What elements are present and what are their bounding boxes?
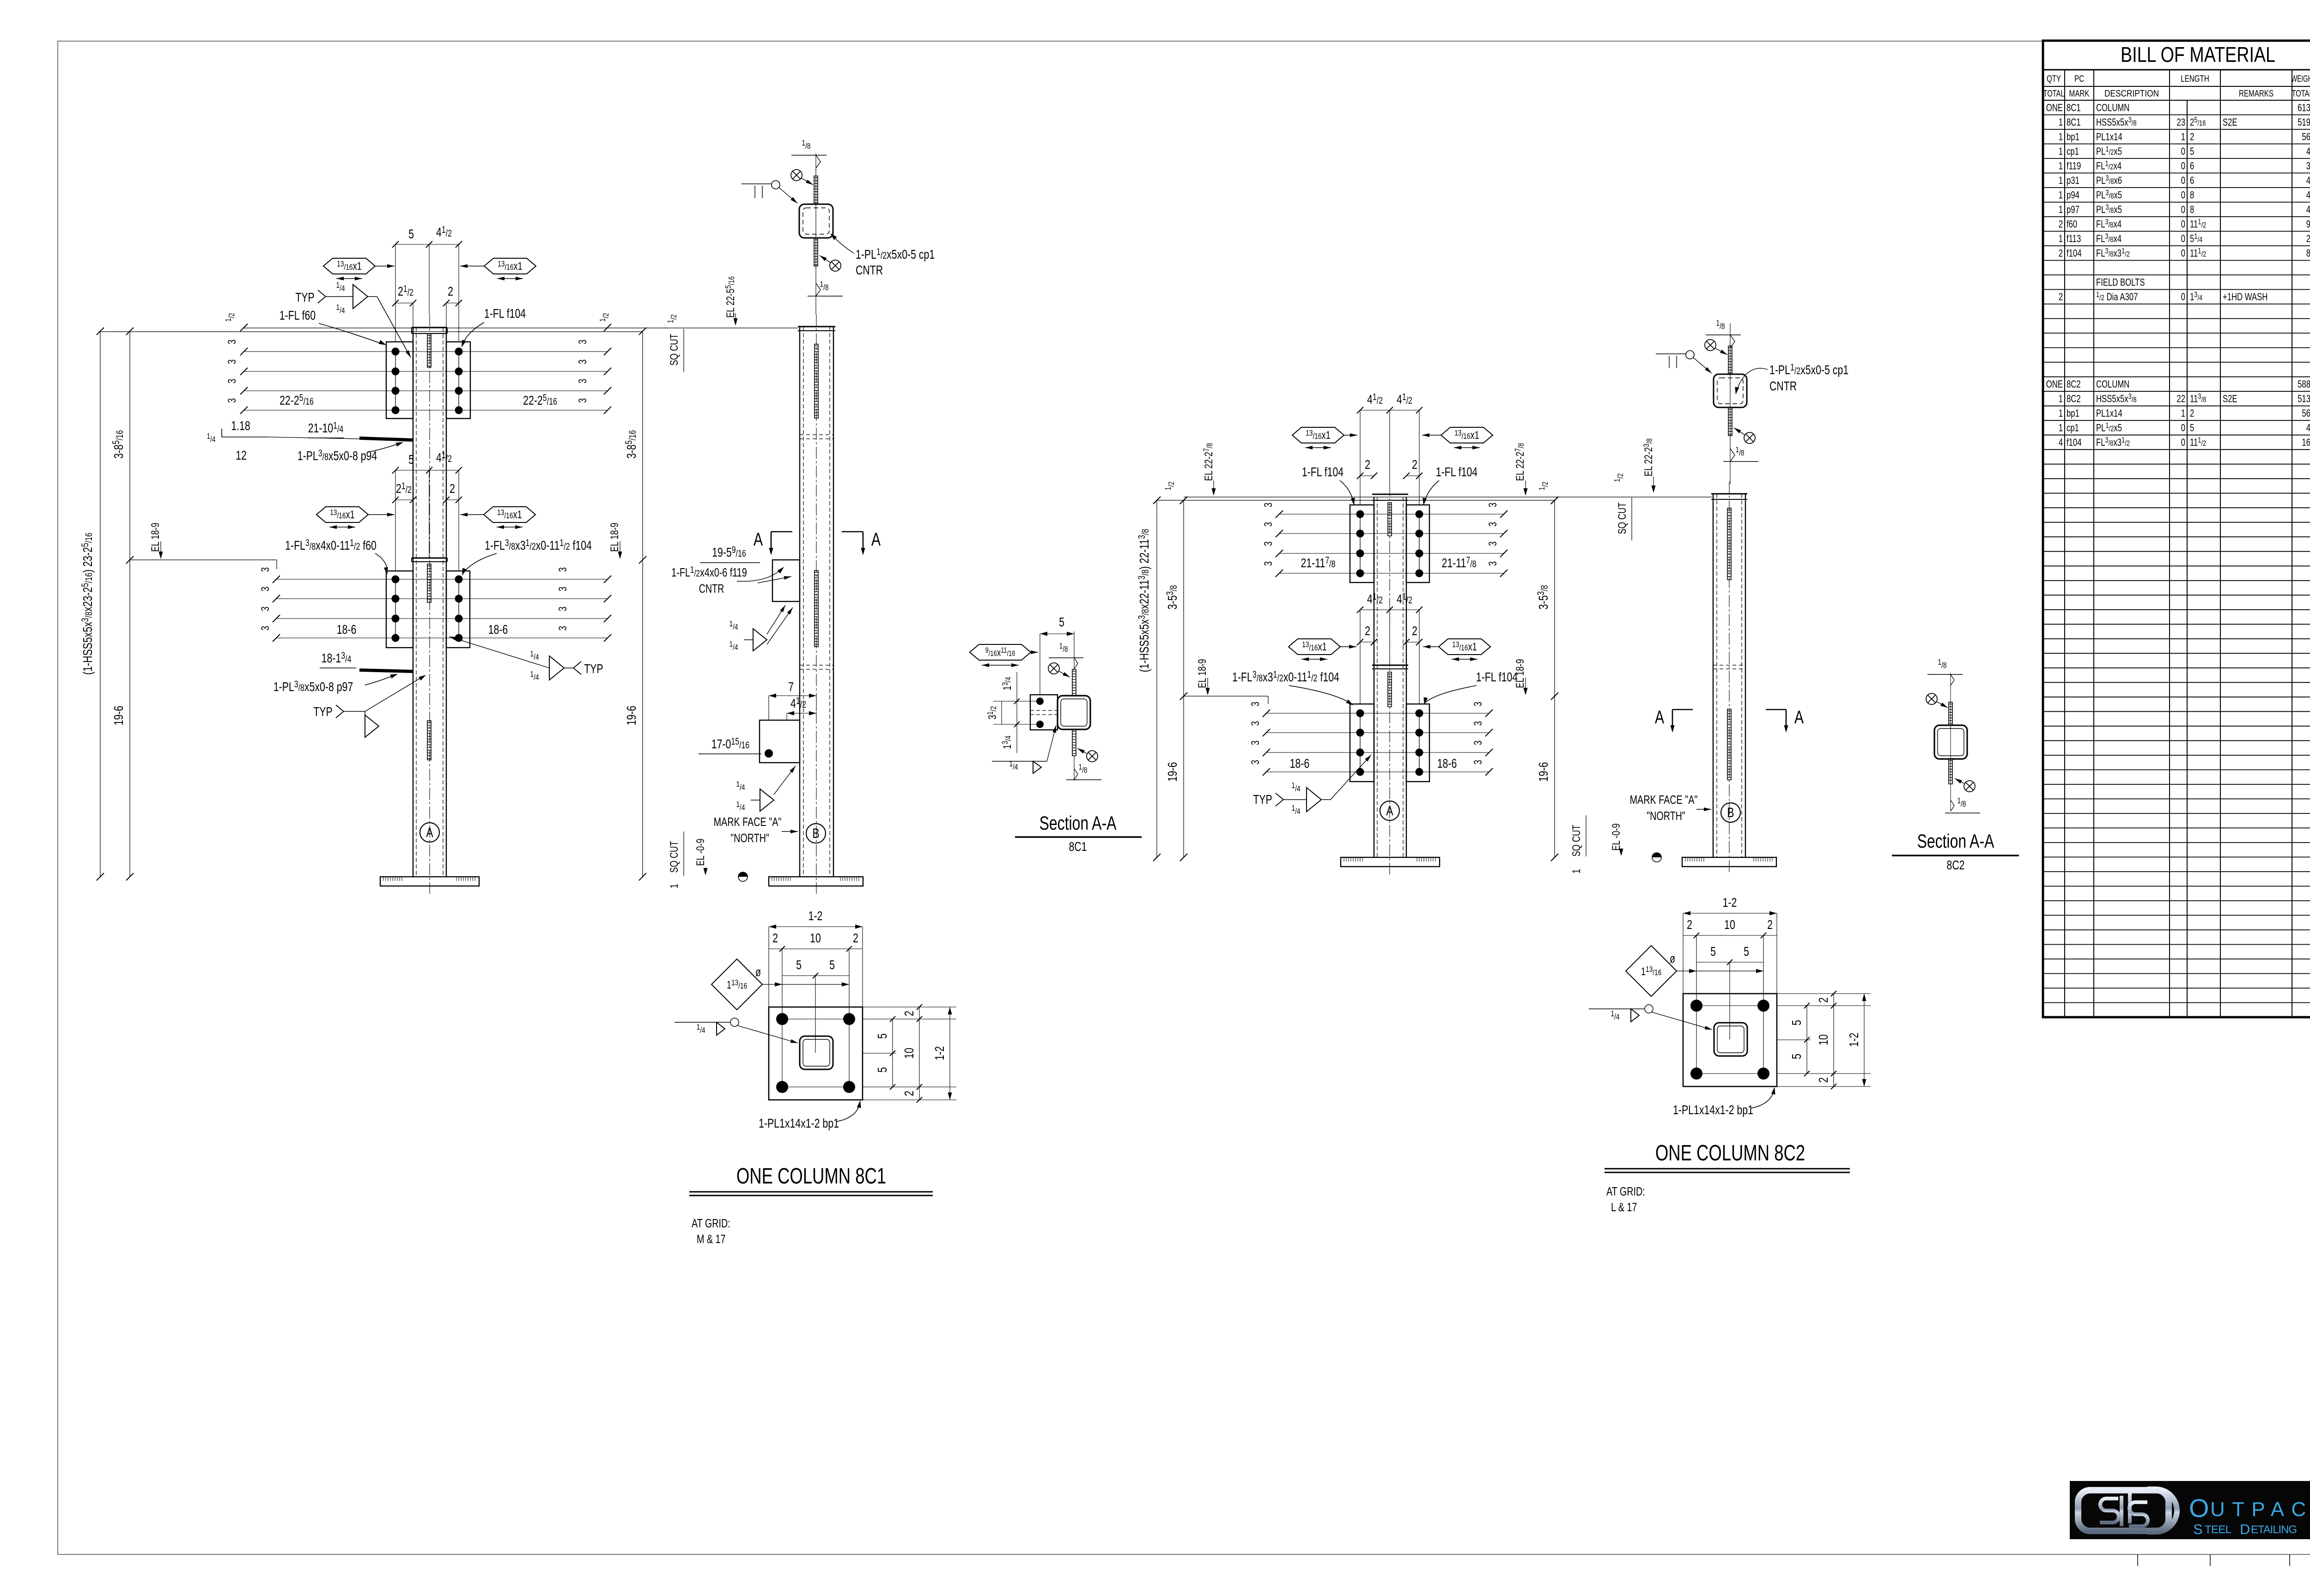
- svg-text:5: 5: [408, 227, 414, 242]
- svg-text:BILL OF MATERIAL: BILL OF MATERIAL: [2121, 42, 2275, 67]
- base plan 8C2 weld 1/4: [1589, 1005, 1712, 1030]
- svg-text:1: 1: [2059, 117, 2063, 128]
- field weld otimes top cp1 8C1: [791, 170, 813, 185]
- weld 1/8 bottom flag cp1 8C2: [1723, 445, 1758, 461]
- SQ CUT label top side 8C1: [666, 314, 684, 372]
- base plate plan 8C2 plate: [1683, 994, 1777, 1086]
- section A-A 8C1 weld 1/8 bottom: [1066, 763, 1101, 780]
- base plan 8C1 weld 1/4: [675, 1018, 798, 1043]
- svg-text:588: 588: [2298, 379, 2310, 390]
- svg-text:1: 1: [2059, 394, 2063, 405]
- bill of material table grid: [2043, 41, 2310, 1017]
- flange plate f104 upper left 8C2: [1350, 505, 1374, 583]
- dim 2 top 8C1: [443, 284, 462, 328]
- section cut A-A flags 8C2: [1655, 707, 1804, 733]
- svg-text:ø: ø: [755, 965, 761, 978]
- svg-text:1-2: 1-2: [932, 1046, 947, 1061]
- base plate plan 8C2 anchor bolts: [1690, 1000, 1769, 1080]
- column 8C1 HSS elevation outline: [412, 314, 447, 894]
- datum point symbol base 8C1: [738, 872, 748, 881]
- svg-text:ONE: ONE: [2046, 102, 2063, 114]
- svg-text:10: 10: [902, 1048, 917, 1059]
- svg-text:1: 1: [2059, 160, 2063, 172]
- label 1-FL3/8x4x0-11 1/2 f60: [285, 537, 389, 575]
- svg-text:DESCRIPTION: DESCRIPTION: [2104, 89, 2159, 99]
- label 1-FL3/8x3 1/2x0-11 1/2 f104 8C2: [1232, 669, 1354, 707]
- svg-text:S2E: S2E: [2223, 117, 2237, 128]
- dim 2-1/2 top 8C1: [392, 283, 416, 328]
- svg-text:SQ CUT: SQ CUT: [668, 334, 681, 366]
- section A-A 8C1 side dims: [986, 672, 1037, 753]
- svg-text:3: 3: [226, 340, 238, 344]
- svg-text:MARK FACE "A": MARK FACE "A": [714, 815, 782, 828]
- svg-text:0: 0: [2181, 175, 2185, 187]
- grid bubble B column 8C1: [806, 824, 826, 843]
- svg-text:10: 10: [1724, 917, 1735, 932]
- label 1-PL1/2x5x0-5 cp1 8C1: [829, 232, 935, 278]
- dimension 21-10 1/4: [308, 420, 344, 438]
- half inch dim top left 8C1: [224, 313, 248, 331]
- svg-text:3: 3: [557, 587, 569, 591]
- svg-text:2: 2: [2306, 233, 2310, 245]
- svg-text:ø: ø: [1670, 952, 1675, 965]
- svg-text:9: 9: [2306, 218, 2310, 230]
- svg-text:AT GRID:: AT GRID:: [692, 1216, 730, 1230]
- svg-text:TOTAL: TOTAL: [2292, 89, 2310, 99]
- svg-text:3: 3: [226, 398, 238, 403]
- weld all-around circle cp1 8C1: [742, 181, 797, 203]
- label 1-PL3/8x5x0-8 p94: [298, 440, 404, 463]
- base plate bp1 under column 8C2: [1341, 857, 1440, 867]
- 3 inch spacing labels lower group 8C1: [259, 567, 569, 631]
- svg-text:EL 18-9: EL 18-9: [608, 522, 621, 552]
- bolt callout hexagon mid right 8C1: [460, 507, 535, 527]
- section A-A 8C2 flat below: [1949, 759, 1952, 784]
- section A-A 8C1 weld 1/4: [992, 725, 1056, 773]
- label 1-FL f104 upper: [460, 306, 526, 348]
- svg-text:5: 5: [408, 452, 414, 467]
- dimension line 22-11 3/8 overall 8C2: [1136, 497, 1161, 861]
- svg-text:1-2: 1-2: [808, 909, 823, 923]
- svg-text:12: 12: [236, 448, 247, 463]
- svg-text:18-6: 18-6: [488, 622, 508, 637]
- svg-text:1-FL f104: 1-FL f104: [1302, 465, 1343, 479]
- section A-A 8C2 flat above: [1949, 702, 1952, 725]
- svg-text:REMARKS: REMARKS: [2239, 88, 2274, 99]
- svg-text:1-FL1/2x4x0-6 f119: 1-FL1/2x4x0-6 f119: [671, 564, 747, 579]
- section A-A 8C1 flat below: [1072, 729, 1076, 781]
- svg-text:5: 5: [875, 1033, 890, 1039]
- svg-text:3: 3: [1472, 740, 1484, 745]
- base plan 8C1 right dims: [863, 1004, 956, 1103]
- svg-text:4: 4: [2306, 423, 2310, 434]
- svg-text:LENGTH: LENGTH: [2181, 73, 2209, 84]
- border fold ticks: [2138, 1223, 2310, 1566]
- weld 1/8 top flag cp1 8C2: [1706, 319, 1741, 348]
- svg-text:0: 0: [2181, 146, 2185, 158]
- flange plate f104 lower left 8C2: [1350, 704, 1374, 782]
- svg-text:8C2: 8C2: [2067, 394, 2081, 405]
- svg-text:EL 18-9: EL 18-9: [1196, 659, 1209, 688]
- svg-text:3: 3: [1249, 702, 1262, 706]
- svg-text:f60: f60: [2067, 218, 2077, 230]
- svg-text:TYP: TYP: [1253, 792, 1272, 807]
- 3 inch spacing labels upper group 8C1: [226, 340, 589, 403]
- section A-A 8C1 otimes bottom: [1077, 748, 1098, 762]
- svg-text:2: 2: [2059, 291, 2063, 303]
- weld 1/4 1/4 at f113: [736, 766, 796, 813]
- svg-text:2: 2: [1412, 624, 1417, 638]
- svg-text:1-2: 1-2: [1847, 1033, 1861, 1047]
- svg-text:8: 8: [2190, 204, 2194, 216]
- svg-text:3: 3: [1262, 541, 1275, 546]
- dim 2-1/2 mid 8C1: [392, 480, 416, 558]
- base plate bp1 under column 8C1: [380, 877, 479, 886]
- dim 2 mid 8C1: [443, 481, 462, 558]
- svg-text:2: 2: [448, 284, 453, 299]
- svg-text:4: 4: [2306, 175, 2310, 187]
- label 1-FL3/8x3 1/2x0-11 1/2 f104: [460, 537, 592, 577]
- svg-text:B: B: [1727, 805, 1734, 820]
- svg-text:2: 2: [1816, 997, 1831, 1003]
- svg-text:1-FL3/8x31/2x0-111/2 f104: 1-FL3/8x31/2x0-111/2 f104: [1232, 669, 1339, 685]
- column 8C2 HSS elevation outline: [1372, 484, 1408, 874]
- svg-text:2: 2: [772, 931, 778, 946]
- svg-text:Section A-A: Section A-A: [1917, 830, 1994, 852]
- svg-text:f113: f113: [2067, 233, 2081, 245]
- BOM column headers: [2043, 73, 2310, 99]
- svg-text:A: A: [1386, 803, 1393, 819]
- SQ CUT label top side 8C2: [1613, 473, 1632, 540]
- svg-text:8C1: 8C1: [1069, 839, 1087, 854]
- svg-text:SQ CUT: SQ CUT: [668, 841, 681, 873]
- svg-text:Section A-A: Section A-A: [1039, 812, 1117, 834]
- flange plate f60 upper left 8C1: [386, 342, 413, 419]
- svg-text:3: 3: [1487, 522, 1499, 527]
- column 8C1 stitch welds on centerline: [427, 334, 431, 760]
- Outpace Steel Detailing logo: [2070, 1481, 2310, 1539]
- svg-text:TYP: TYP: [295, 290, 314, 305]
- base plate plan 8C2 HSS: [1714, 1023, 1747, 1056]
- svg-text:AT GRID:: AT GRID:: [1606, 1184, 1645, 1198]
- title ONE COLUMN 8C2: [1605, 1141, 1850, 1172]
- svg-text:"NORTH": "NORTH": [730, 831, 769, 844]
- svg-text:3: 3: [226, 359, 238, 364]
- base plan 8C2 dim 1-2 top: [1683, 895, 1777, 994]
- plate f113 side view 8C1: [699, 680, 816, 763]
- section A-A 8C2 otimes bottom: [1955, 778, 1975, 792]
- svg-text:3: 3: [1472, 702, 1484, 706]
- weld symbol TYP bottom 8C2: [1253, 755, 1371, 816]
- svg-text:2: 2: [1365, 457, 1370, 472]
- svg-text:PC: PC: [2074, 73, 2084, 84]
- svg-text:cp1: cp1: [2067, 423, 2079, 434]
- svg-text:3: 3: [1487, 561, 1499, 566]
- svg-text:MARK FACE "A": MARK FACE "A": [1630, 793, 1698, 806]
- field weld otimes bottom cp1 8C2: [1734, 428, 1755, 443]
- dim 2 2 mid 8C2: [1357, 624, 1422, 645]
- svg-text:1-FL3/8x31/2x0-111/2 f104: 1-FL3/8x31/2x0-111/2 f104: [485, 537, 592, 553]
- svg-text:3: 3: [577, 379, 589, 383]
- SQ CUT label bottom side 8C2: [1570, 815, 1623, 874]
- svg-text:10: 10: [810, 931, 821, 946]
- field weld otimes bottom cp1 8C1: [820, 255, 841, 271]
- label 1-PL1x14x1-2 bp1: [759, 1100, 862, 1131]
- svg-text:18-6: 18-6: [1437, 756, 1457, 771]
- svg-text:3: 3: [1249, 760, 1262, 765]
- svg-text:2: 2: [2059, 248, 2063, 259]
- section A-A 8C1 dim 5: [1040, 615, 1074, 695]
- base plate plan 8C1 plate: [769, 1007, 863, 1100]
- svg-text:(1-HSS5x5x3/8x22-113/8) 22-11: (1-HSS5x5x3/8x22-113/8) 22-113/8: [1136, 529, 1152, 673]
- section A-A 8C1 hexagon 9/16x11/16: [970, 644, 1038, 665]
- base plan 8C1 dim 1-2 top: [769, 909, 863, 1007]
- dimension 18-6 right 8C2: [1437, 756, 1457, 771]
- svg-text:f119: f119: [2067, 160, 2081, 172]
- svg-text:0: 0: [2181, 189, 2185, 201]
- cap plate cp1 edge above 8C1: [814, 176, 818, 204]
- svg-text:8C2: 8C2: [2067, 379, 2081, 390]
- svg-text:4: 4: [2306, 189, 2310, 201]
- section A-A 8C1 otimes top: [1048, 663, 1070, 677]
- svg-text:cp1: cp1: [2067, 146, 2079, 158]
- svg-text:2: 2: [853, 931, 858, 946]
- svg-text:QTY: QTY: [2047, 73, 2061, 84]
- section A-A 8C2 weld 1/8 top: [1927, 658, 1963, 686]
- svg-text:1: 1: [2059, 131, 2063, 143]
- dimension 18-6 lower left: [337, 622, 357, 637]
- svg-text:3: 3: [1487, 503, 1499, 507]
- dimension 22-2 5/16 upper right: [523, 392, 557, 408]
- svg-text:4: 4: [2059, 437, 2063, 449]
- bolt callout hexagon mid right 8C2: [1423, 639, 1490, 659]
- dimension 22-2 5/16 upper left: [280, 392, 314, 408]
- svg-text:3: 3: [557, 626, 569, 631]
- section A-A 8C2 title: [1892, 830, 2019, 873]
- base plate bp1 side view 8C2: [1682, 857, 1776, 867]
- AT GRID L and 17: [1606, 1184, 1645, 1214]
- svg-text:"NORTH": "NORTH": [1647, 809, 1685, 822]
- svg-text:2: 2: [2059, 218, 2063, 230]
- weld symbol TYP bottom left 8C1: [313, 673, 427, 737]
- svg-text:f104: f104: [2067, 437, 2082, 449]
- svg-text:16: 16: [2302, 437, 2310, 449]
- svg-text:1: 1: [1570, 869, 1583, 874]
- svg-text:COLUMN: COLUMN: [2096, 102, 2129, 114]
- weld 1/8 top flag cp1 8C1: [791, 139, 827, 168]
- right dimension line 8C1 elevation: [608, 328, 646, 880]
- dimension line segments 3-8 5/16 and 19-6 left 8C1: [110, 328, 134, 880]
- EL 22-2 7/8 label left 8C2: [1202, 443, 1216, 496]
- svg-text:p31: p31: [2067, 175, 2079, 187]
- base plan 8C2 dims 2 10 2: [1683, 917, 1777, 1006]
- svg-text:1-PL1/2x5x0-5 cp1: 1-PL1/2x5x0-5 cp1: [1769, 362, 1848, 377]
- svg-text:1: 1: [2059, 233, 2063, 245]
- svg-text:3: 3: [557, 607, 569, 611]
- svg-text:2: 2: [902, 1011, 917, 1016]
- plate p94 edge view: [359, 437, 413, 442]
- svg-text:CNTR: CNTR: [699, 582, 724, 595]
- svg-text:3: 3: [1472, 760, 1484, 765]
- svg-text:0: 0: [2181, 291, 2185, 303]
- bolt rows lower group 8C1: [273, 576, 611, 642]
- section A-A 8C1 title: [1015, 812, 1142, 854]
- svg-text:3: 3: [1262, 561, 1275, 566]
- svg-text:ONE: ONE: [2046, 379, 2063, 390]
- dim 5 and 4-1/2 mid 8C1: [392, 449, 462, 571]
- svg-text:613: 613: [2298, 102, 2310, 114]
- bolt callout hexagon top left 8C2: [1292, 427, 1357, 448]
- dimension 21-11 7/8 right: [1441, 555, 1476, 570]
- cap plate cp1 detail 8C2 HSS section: [1714, 323, 1747, 484]
- column 8C2 stitch welds on centerline: [1388, 503, 1392, 707]
- svg-text:5: 5: [1059, 615, 1064, 630]
- label MARK FACE A NORTH 8C1: [714, 815, 798, 844]
- svg-text:ETAILING: ETAILING: [2251, 1523, 2297, 1536]
- svg-text:19-6: 19-6: [1165, 762, 1180, 782]
- svg-text:WEIGHT: WEIGHT: [2292, 74, 2310, 84]
- svg-text:A: A: [871, 529, 881, 550]
- column 8C1 side view outline: [798, 314, 835, 894]
- svg-text:1-FL f104: 1-FL f104: [1436, 465, 1477, 479]
- grid bubble A column 8C2: [1380, 801, 1399, 820]
- svg-text:2: 2: [1365, 624, 1370, 638]
- hidden line p94 side view: [800, 435, 833, 439]
- EL 18-9 reference left 8C1: [130, 522, 277, 569]
- label 1-PL1x14x1-2 bp1 8C2: [1673, 1086, 1776, 1117]
- svg-text:A: A: [1794, 707, 1804, 728]
- dimension 18-6 left 8C2: [1290, 756, 1310, 771]
- svg-text:3: 3: [1249, 721, 1262, 726]
- flange plate f60 lower left 8C1: [386, 571, 413, 648]
- svg-text:4: 4: [2306, 204, 2310, 216]
- base plan 8C2 right dims: [1777, 991, 1871, 1089]
- half inch dim top left 8C2: [1164, 481, 1187, 504]
- svg-text:56: 56: [2302, 408, 2310, 419]
- base plate plan 8C1 HSS: [800, 1036, 833, 1069]
- label 1-FL f104 top left 8C2: [1302, 465, 1356, 506]
- right dimension line 8C2 elevation: [1514, 497, 1558, 861]
- svg-text:2: 2: [1816, 1077, 1831, 1083]
- svg-text:0: 0: [2181, 248, 2185, 259]
- label 1-PL1/2x5x0-5 cp1 8C2: [1734, 362, 1849, 395]
- svg-text:1.18: 1.18: [231, 419, 250, 433]
- base plan 8C2 bolt dia diamond: [1626, 946, 1763, 996]
- cap plate cp1 edge below 8C1: [814, 238, 818, 266]
- svg-text:5: 5: [829, 958, 835, 972]
- svg-text:18-6: 18-6: [1290, 756, 1310, 771]
- top of steel line 8C1: [100, 328, 798, 332]
- svg-text:A: A: [1655, 707, 1665, 728]
- svg-text:3: 3: [259, 567, 272, 572]
- svg-text:6: 6: [2190, 175, 2194, 187]
- svg-text:3: 3: [226, 379, 238, 383]
- svg-text:22: 22: [2176, 394, 2185, 405]
- bolt callout hexagon top left 8C1: [323, 258, 395, 279]
- label 1-FL f104 lower right 8C2: [1422, 670, 1518, 705]
- svg-text:SQ CUT: SQ CUT: [1570, 825, 1583, 857]
- top of steel line 8C2: [1157, 497, 1712, 500]
- dim 4-1/2 4-1/2 top 8C2: [1357, 391, 1422, 505]
- weld 1/8 bottom flag cp1 8C1: [808, 280, 843, 296]
- dimension line 23-2 5/16 overall 8C1: [79, 328, 104, 880]
- label 1-FL f104 top right 8C2: [1422, 465, 1478, 506]
- svg-text:5: 5: [1710, 944, 1716, 959]
- slope symbol 1.18:12: [207, 419, 359, 463]
- svg-text:S: S: [2193, 1521, 2203, 1537]
- svg-text:MARK: MARK: [2069, 88, 2090, 99]
- svg-text:COLUMN: COLUMN: [2096, 379, 2129, 390]
- svg-text:1-FL3/8x4x0-111/2 f60: 1-FL3/8x4x0-111/2 f60: [285, 537, 377, 553]
- svg-text:3: 3: [1249, 740, 1262, 745]
- svg-text:1-FL f104: 1-FL f104: [1476, 670, 1518, 685]
- hidden splice line side 8C2: [1713, 665, 1745, 669]
- EL 22-5 5/16 label side 8C1: [724, 276, 737, 326]
- svg-text:56: 56: [2302, 131, 2310, 143]
- svg-text:1-FL f60: 1-FL f60: [280, 308, 316, 323]
- svg-text:3: 3: [577, 398, 589, 403]
- plate p97 edge view: [359, 668, 413, 673]
- svg-text:513: 513: [2298, 394, 2310, 405]
- bolt callout hexagon mid left 8C2: [1289, 639, 1356, 659]
- svg-text:L & 17: L & 17: [1611, 1200, 1637, 1214]
- svg-text:1-FL f104: 1-FL f104: [484, 306, 526, 321]
- svg-text:S2E: S2E: [2223, 394, 2237, 405]
- label 1-PL3/8x5x0-8 p97: [274, 672, 399, 694]
- svg-text:1: 1: [2059, 175, 2063, 187]
- bolt callout hexagon top right 8C2: [1422, 427, 1493, 448]
- half inch dim top right 8C1: [598, 313, 611, 331]
- section cut A-A flags 8C1: [754, 529, 881, 555]
- svg-text:2: 2: [902, 1091, 917, 1096]
- BOM title: [2121, 42, 2275, 67]
- dim 4-1/2 4-1/2 mid 8C2: [1357, 591, 1422, 704]
- flange plate f104 lower right 8C2: [1406, 704, 1429, 782]
- svg-text:0: 0: [2181, 423, 2185, 434]
- svg-text:5: 5: [1789, 1020, 1804, 1026]
- svg-text:1-PL3/8x5x0-8 p94: 1-PL3/8x5x0-8 p94: [298, 448, 377, 463]
- bolt rows upper group 8C2: [1276, 510, 1508, 577]
- svg-text:M & 17: M & 17: [697, 1232, 726, 1245]
- svg-text:3: 3: [1472, 721, 1484, 726]
- svg-text:PL1x14: PL1x14: [2096, 408, 2122, 419]
- svg-text:2: 2: [1412, 457, 1417, 472]
- svg-text:8C1: 8C1: [2067, 102, 2081, 114]
- BOM data rows: [2046, 102, 2310, 448]
- svg-text:1-PL1/2x5x0-5 cp1: 1-PL1/2x5x0-5 cp1: [856, 246, 935, 262]
- svg-text:0: 0: [2181, 160, 2185, 172]
- svg-text:5: 5: [2190, 423, 2194, 434]
- svg-text:0: 0: [2181, 218, 2185, 230]
- 3 inch labels lower group 8C2: [1249, 702, 1484, 765]
- half inch dim top right 8C2: [1538, 481, 1558, 504]
- svg-text:(1-HSS5x5x3/8x23-25/16) 23-25: (1-HSS5x5x3/8x23-25/16) 23-25/16: [79, 533, 95, 675]
- label 1-FL f60: [280, 308, 387, 347]
- svg-text:f104: f104: [2067, 248, 2082, 259]
- datum point symbol base 8C2: [1652, 853, 1661, 862]
- section A-A 8C2 HSS tube: [1934, 673, 1967, 811]
- svg-text:3: 3: [577, 359, 589, 364]
- svg-text:1: 1: [2059, 408, 2063, 419]
- svg-text:23: 23: [2176, 117, 2185, 128]
- svg-text:0: 0: [2181, 233, 2185, 245]
- svg-text:3: 3: [2306, 160, 2310, 172]
- flange plate f104 lower right 8C1: [446, 571, 470, 648]
- dimension 18-1 3/4: [320, 650, 356, 668]
- weld 1/4 1/4 at f119: [729, 605, 793, 652]
- svg-text:3: 3: [259, 607, 272, 611]
- EL 22-2 7/8 label right 8C2: [1514, 443, 1527, 496]
